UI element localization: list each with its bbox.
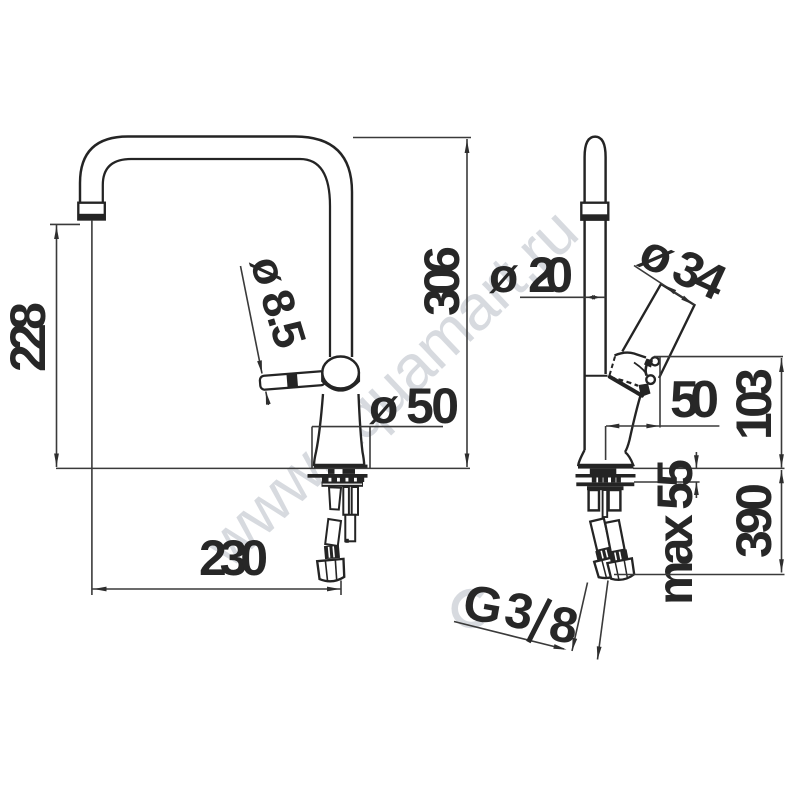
svg-text:ø: ø [369, 381, 399, 434]
front view thread teeth [322, 477, 364, 482]
side view washer [576, 474, 636, 478]
dimension 230 left extension [91, 220, 93, 595]
side view handle hinge [609, 353, 659, 397]
front view lever rod [260, 371, 326, 390]
svg-text:ø: ø [489, 250, 519, 303]
dimension 306 extension line [353, 137, 471, 139]
side view base skirt [578, 450, 633, 465]
label G3/8 leader [454, 581, 608, 660]
dimension 50 top line [654, 356, 783, 358]
side view spout collar [581, 203, 608, 220]
dimension 390 line [779, 470, 784, 573]
dimension dia34 line [634, 266, 694, 306]
front view mounting nut [322, 482, 364, 487]
dimension 306 text [414, 246, 470, 316]
dimension max55 text [647, 459, 703, 605]
svg-text:306: 306 [414, 246, 470, 316]
dimension 230 line [93, 587, 342, 592]
side view thread teeth [592, 477, 621, 482]
side view body curve [625, 396, 641, 453]
front view shank stem [328, 469, 355, 474]
svg-text:max 55: max 55 [647, 459, 703, 605]
svg-text:G 3: G 3 [459, 574, 538, 641]
svg-text:103: 103 [726, 368, 782, 440]
front view washer [308, 474, 368, 478]
dimension 306 line [465, 139, 470, 467]
side view handle [622, 284, 694, 378]
dimension dia50 box [312, 427, 443, 469]
front view spout outer contour [80, 137, 352, 358]
dimension 228 line [54, 225, 59, 467]
side view bracket bar [587, 486, 624, 490]
svg-text:228: 228 [0, 302, 56, 372]
dimension 103 text [726, 368, 782, 440]
dimension 390 bottom line [614, 574, 785, 576]
front view spacer block [329, 487, 341, 509]
side view base plate [578, 465, 634, 469]
side view supply hose 1 [585, 517, 623, 580]
side view supply hose 2 [600, 519, 636, 582]
dimension 390 text [726, 483, 782, 558]
svg-text:20: 20 [528, 247, 573, 303]
front view base plate [314, 465, 368, 469]
dimension dia34 text [631, 223, 735, 311]
dimension dia50 text [369, 378, 459, 434]
dimension max55 arrows [694, 452, 699, 498]
deck surface line left [56, 467, 470, 469]
dimension dia20 line [520, 295, 606, 299]
dimension dia8.5 leader [241, 266, 271, 405]
front view aerator nozzle [78, 203, 105, 220]
svg-text:50: 50 [406, 378, 459, 434]
deck surface line right [633, 467, 785, 469]
svg-text:390: 390 [726, 483, 782, 558]
dimension 50 line [606, 424, 719, 429]
side view shank stem [590, 469, 617, 475]
front view body cone [314, 394, 364, 465]
front view spout inner contour [103, 159, 330, 357]
side view lower washer [576, 482, 634, 486]
dimension dia20 text [489, 247, 573, 303]
front view head cap [322, 357, 359, 391]
svg-text:230: 230 [199, 530, 268, 586]
svg-text:50: 50 [670, 371, 719, 429]
dimension 228 text [0, 302, 56, 372]
dimension 228 extension line [50, 223, 80, 225]
dimension 50 text [670, 371, 719, 429]
watermark letter fragment [455, 592, 482, 625]
dimension dia8.5 text [240, 250, 316, 354]
dimension 230 right extension [340, 581, 342, 596]
label G3/8 text [458, 574, 583, 655]
watermark www.aquamart.ru [189, 194, 591, 581]
dimension 50 extension v [606, 357, 660, 460]
front view stud rods [343, 487, 358, 543]
dimension 230 text [199, 530, 268, 586]
front view supply hose [317, 519, 345, 582]
dimension max55 lower line [634, 481, 700, 483]
dimension 103 line [779, 358, 784, 468]
side view riser pipe [585, 137, 606, 450]
side view bracket legs [589, 490, 621, 517]
side view body joint line [585, 375, 608, 377]
